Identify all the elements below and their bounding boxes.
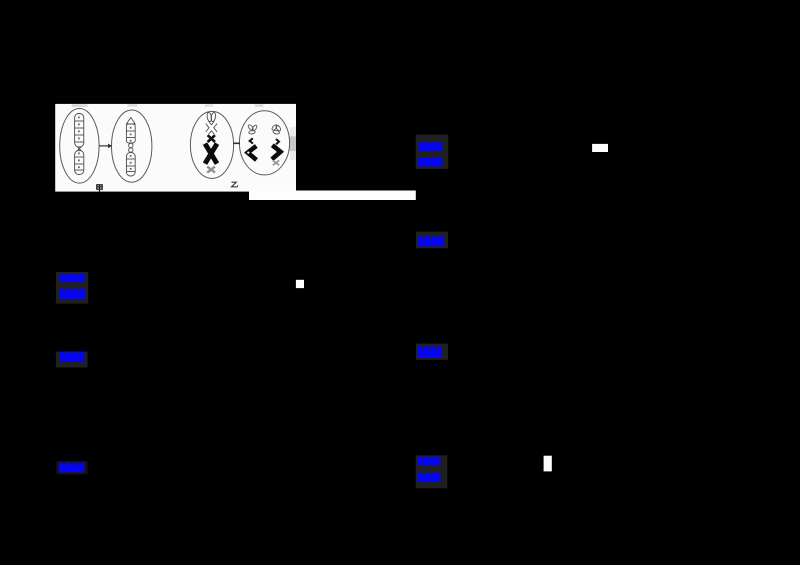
answer tag box L1 [56, 272, 88, 304]
trilobe chromosome (E4 top-left) [247, 124, 257, 134]
white dash marker (right column top) [592, 144, 608, 152]
scrollbar track [290, 127, 296, 160]
cell ellipse E3 [190, 111, 233, 178]
caption tick 2 [128, 104, 138, 107]
white block marker (right column bottom) [544, 456, 552, 472]
bottom white strip [249, 191, 416, 201]
blue label R4 line1 [418, 457, 441, 466]
cell ellipse E1 [60, 109, 99, 184]
banded chromosome in E1 [75, 114, 84, 175]
cell ellipse E2 [112, 110, 152, 182]
scrollbar thumb [289, 136, 296, 151]
answer tag box R4 [416, 455, 448, 488]
large black X chromosome in E3 [205, 144, 217, 164]
label jia under E1/E2 [97, 185, 102, 192]
hatched X chromosome (bottom of E3) [207, 167, 215, 173]
arrow E3 to E4 [233, 142, 240, 144]
large left chevron chromosome in E4 [248, 146, 257, 160]
band letters E1 [78, 117, 80, 169]
blue label L1 line1 [60, 274, 85, 282]
answer tag box L3 [57, 461, 88, 475]
answer tag box R2 [416, 232, 448, 249]
chromatid pair outline (top of E3) [206, 112, 216, 133]
caption tick 3 [205, 104, 213, 106]
small left chevron chromosome in E4 [250, 138, 253, 143]
small black X chromosome in E3 [208, 135, 215, 142]
banded chromosome in E2 [126, 118, 135, 177]
cell ellipse E4 [239, 111, 289, 175]
small right chevron chromosome in E4 [276, 139, 279, 144]
answer tag box R3 [416, 344, 448, 360]
answer tag box R1 [416, 135, 449, 169]
large right chevron chromosome in E4 [272, 145, 281, 159]
arrow E1 to E2 [99, 144, 112, 149]
label yi under E3/E4 [232, 182, 238, 187]
caption tick 1 [72, 104, 88, 107]
white square marker (left column) [296, 280, 304, 288]
blue label R1 line1 [419, 142, 443, 151]
band letters E2 [130, 127, 132, 170]
blue label R1 line2 [418, 158, 443, 167]
answer tag box L2 [56, 352, 88, 368]
blue label R2 [418, 236, 444, 246]
blue label R3 [418, 347, 442, 358]
trilobe chromosome (E4 top-right) [271, 124, 281, 134]
blue label L3 [59, 463, 84, 473]
blue label R4 line2 [418, 473, 441, 482]
caption tick 4 [255, 104, 264, 107]
centromere dot left [247, 152, 249, 154]
blue label L2 [60, 352, 84, 362]
figure panel (white) [55, 104, 296, 192]
hatched bits (E4 bottom-right) [273, 160, 279, 165]
blue label L1 line2 [60, 289, 86, 300]
